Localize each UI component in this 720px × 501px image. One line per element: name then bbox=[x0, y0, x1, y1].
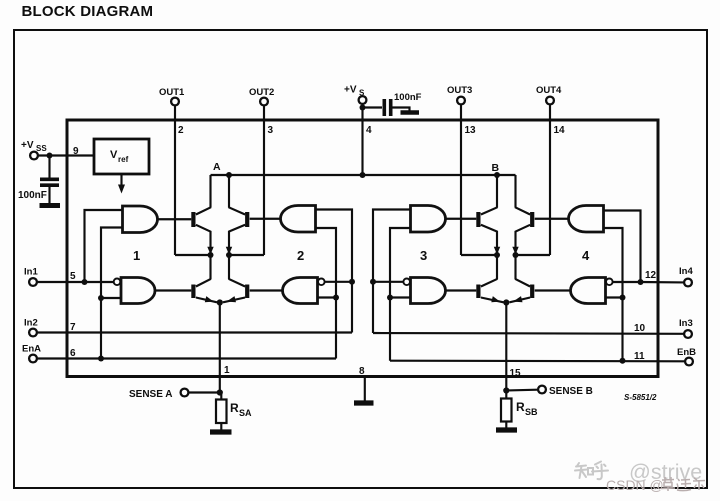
wire EnB riser to gate4a input bbox=[604, 228, 623, 361]
IC package box bbox=[67, 120, 658, 377]
node EnB junction bbox=[620, 358, 626, 364]
pin SENSE B terminal bbox=[538, 386, 593, 397]
svg-text:+V: +V bbox=[344, 85, 357, 96]
wire EnB from pin bbox=[390, 360, 685, 363]
svg-text:5: 5 bbox=[70, 271, 76, 282]
block label 2 bbox=[297, 248, 304, 263]
wire In1 to gate1 bbox=[37, 281, 113, 283]
node EnA branch to gate2b bbox=[333, 295, 339, 301]
transistor Q2 (bridge A upper right) bbox=[226, 207, 250, 255]
svg-text:EnB: EnB bbox=[677, 347, 696, 358]
svg-text:R: R bbox=[230, 401, 239, 415]
wire OUT4 down to bridge B right bbox=[549, 105, 551, 255]
wire gate3a output to Q5 base bbox=[446, 218, 477, 220]
wire gate1a output to Q1 base bbox=[158, 218, 192, 220]
title bbox=[22, 3, 154, 20]
watermark CSDN @caolianle bbox=[606, 477, 664, 493]
pin In2 terminal bbox=[24, 318, 38, 337]
wire EnB riser to gate3a input bbox=[390, 228, 411, 361]
wire Q7 collector bbox=[496, 255, 498, 279]
node Vss-cap junction bbox=[47, 153, 53, 159]
wire sense B node to terminal bbox=[506, 389, 537, 392]
svg-text:10: 10 bbox=[634, 323, 646, 334]
wire EnB branch to gate3b input bbox=[390, 296, 411, 298]
wire EnA branch to gate2b input bbox=[318, 296, 337, 298]
svg-text:1: 1 bbox=[224, 365, 230, 376]
svg-text:SENSE A: SENSE A bbox=[129, 389, 173, 400]
transistor Q4 (bridge A lower right) bbox=[223, 279, 249, 303]
pin number 7 bbox=[70, 322, 76, 333]
wire RSA to ground bbox=[220, 423, 222, 430]
pin In3 terminal bbox=[679, 318, 693, 338]
svg-text:B: B bbox=[492, 162, 500, 174]
wire In2 riser to gate2a input bbox=[316, 210, 353, 333]
svg-text:In3: In3 bbox=[679, 318, 693, 329]
wire sense A to resistor node bbox=[189, 391, 220, 393]
svg-text:11: 11 bbox=[634, 351, 645, 362]
wire OUT2 down to bridge A right bbox=[263, 106, 265, 255]
wire EnB branch to gate4b input bbox=[606, 296, 623, 298]
pin number 4 bbox=[366, 125, 372, 136]
svg-text:8: 8 bbox=[359, 366, 365, 377]
resistor RSA bbox=[216, 393, 252, 424]
svg-text:4: 4 bbox=[582, 248, 590, 263]
pin +Vs terminal bbox=[344, 85, 366, 104]
transistor Q1 (bridge A upper left) bbox=[191, 207, 213, 255]
svg-text:15: 15 bbox=[510, 368, 522, 379]
wire capacitor to ground (Vs) bbox=[393, 108, 410, 111]
pin SENSE A terminal bbox=[129, 389, 188, 400]
svg-text:OUT3: OUT3 bbox=[447, 85, 472, 96]
wire junction to capacitor 100nF (Vs) bbox=[363, 106, 383, 108]
svg-text:SA: SA bbox=[239, 408, 252, 418]
node EnA branch to gate1b bbox=[98, 295, 104, 301]
node In1 junction bbox=[82, 279, 88, 285]
wire In3 riser to gate3a input bbox=[373, 210, 411, 334]
wire In1 riser to gate1a input bbox=[85, 210, 123, 282]
nand-gate 1b (block 1 lower) bbox=[114, 278, 155, 304]
node EnB branch to gate3b bbox=[387, 295, 393, 301]
wire junction to capacitor bbox=[48, 156, 50, 178]
ground (pin 8) bbox=[354, 400, 374, 405]
pin In4 terminal bbox=[679, 266, 693, 286]
node In2 branch to gate2b bubble bbox=[349, 279, 355, 285]
wire gate2a output to Q2 base bbox=[250, 218, 281, 220]
wire In2 branch to gate2b bubble bbox=[325, 281, 352, 283]
transistor Q5 (bridge B upper left) bbox=[476, 207, 500, 255]
pin OUT3 terminal bbox=[447, 85, 472, 104]
wire In4 riser to gate4a input bbox=[604, 211, 641, 283]
svg-text:1: 1 bbox=[133, 248, 140, 263]
svg-text:+V: +V bbox=[21, 140, 34, 151]
pin number 3 bbox=[268, 125, 274, 136]
ground (Vss cap) bbox=[40, 203, 61, 208]
node OUT2 junction bbox=[226, 252, 264, 258]
and-gate 2a (block 2 upper, mirrored) bbox=[281, 206, 316, 233]
svg-text:ref: ref bbox=[118, 155, 129, 164]
svg-text:SB: SB bbox=[525, 407, 538, 417]
node OUT1 junction bbox=[175, 252, 214, 258]
wire gate1b output to Q3 base bbox=[155, 289, 191, 291]
svg-text:9: 9 bbox=[73, 146, 79, 157]
Vref output arrow bbox=[118, 174, 125, 194]
node OUT4 junction bbox=[513, 252, 551, 258]
svg-text:In1: In1 bbox=[24, 267, 38, 278]
svg-text:14: 14 bbox=[554, 125, 566, 136]
figure code S-5851/2 bbox=[624, 393, 657, 402]
svg-text:S-5851/2: S-5851/2 bbox=[624, 393, 657, 402]
node sense B junction bbox=[503, 299, 509, 305]
nand-gate 2b (block 2 lower, mirrored) bbox=[283, 278, 325, 304]
wire gate4a output to Q6 base bbox=[535, 218, 569, 220]
Vref box bbox=[94, 139, 149, 174]
svg-text:OUT4: OUT4 bbox=[536, 85, 562, 96]
transistor Q7 (bridge B lower left) bbox=[476, 279, 503, 303]
block label 3 bbox=[420, 248, 427, 263]
pin number 12 bbox=[645, 270, 657, 281]
node rail junction Vs bbox=[360, 172, 366, 178]
svg-text:CSDN @: CSDN @ bbox=[606, 477, 664, 493]
wire In3 branch to gate3b bubble bbox=[373, 281, 403, 283]
node B label bbox=[492, 162, 500, 174]
svg-text:2: 2 bbox=[297, 248, 304, 263]
wire Q8 collector bbox=[514, 255, 516, 279]
capacitor 100nF (Vss) bbox=[18, 179, 59, 201]
wire capacitor to ground bbox=[48, 187, 50, 204]
svg-text:A: A bbox=[213, 161, 221, 173]
node In4 branch to gate4b bubble bbox=[638, 279, 644, 285]
pin number 11 bbox=[634, 351, 645, 362]
wire OUT1 down to bridge A left bbox=[174, 106, 176, 255]
svg-text:In4: In4 bbox=[679, 266, 693, 277]
transistor Q6 (bridge B upper right) bbox=[512, 207, 534, 255]
wire Q3 collector bbox=[209, 255, 211, 279]
nand-gate 3b (block 3 lower) bbox=[403, 278, 445, 304]
wire gate2b output to Q4 base bbox=[250, 289, 283, 291]
block label 4 bbox=[582, 248, 590, 263]
ground (RSA) bbox=[210, 429, 232, 434]
node sense A resistor junction bbox=[217, 389, 223, 395]
pin number 5 bbox=[70, 271, 76, 282]
wire sense A column bbox=[219, 303, 221, 393]
svg-text:3: 3 bbox=[420, 248, 427, 263]
wire +Vs down to supply rail bbox=[361, 104, 363, 175]
node EnB branch to gate4b bbox=[620, 295, 626, 301]
node In3 branch to gate3b bubble bbox=[370, 279, 376, 285]
and-gate 4a (block 4 upper, mirrored) bbox=[569, 206, 604, 233]
wire In2 to block 2 riser bbox=[37, 331, 352, 333]
node sense A junction bbox=[217, 299, 223, 305]
node Vs-cap junction bbox=[360, 105, 366, 111]
resistor RSB bbox=[501, 393, 538, 422]
svg-text:OUT1: OUT1 bbox=[159, 87, 185, 98]
nand-gate 4b (block 4 lower, mirrored) bbox=[571, 278, 613, 304]
wire EnA riser to gate2a input bbox=[316, 228, 337, 359]
wire In3 from pin bbox=[373, 332, 684, 335]
pin number 10 bbox=[634, 323, 646, 334]
wire sense B column bbox=[505, 303, 507, 391]
svg-text:7: 7 bbox=[70, 322, 76, 333]
svg-text:4: 4 bbox=[366, 125, 372, 136]
pin number 1 bbox=[224, 365, 230, 376]
wire EnA riser to gate1a input bbox=[101, 228, 123, 359]
wire rail to Q5 collector bbox=[496, 175, 498, 208]
node rail junction A bbox=[226, 172, 232, 178]
pin number 2 bbox=[178, 125, 184, 136]
and-gate 3a (block 3 upper) bbox=[411, 206, 446, 233]
wire RSB to ground bbox=[505, 422, 507, 428]
pin number 15 bbox=[510, 368, 522, 379]
pin OUT2 terminal bbox=[249, 87, 274, 105]
wire gate3b output to Q7 base bbox=[446, 289, 477, 291]
svg-text:SENSE B: SENSE B bbox=[549, 386, 593, 397]
pin OUT1 terminal bbox=[159, 87, 185, 105]
pin OUT4 terminal bbox=[536, 85, 562, 104]
svg-text:100nF: 100nF bbox=[18, 190, 47, 201]
block label 1 bbox=[133, 248, 140, 263]
wire pin9 +Vss to Vref bbox=[38, 154, 94, 156]
svg-text:In2: In2 bbox=[24, 318, 38, 329]
node A label bbox=[213, 161, 221, 173]
svg-text:BLOCK DIAGRAM: BLOCK DIAGRAM bbox=[22, 3, 154, 20]
pin number 9 bbox=[73, 146, 79, 157]
pin EnA terminal bbox=[22, 344, 41, 363]
svg-text:13: 13 bbox=[465, 125, 477, 136]
wire rail to Q1 collector bbox=[209, 175, 211, 208]
pin +Vss terminal bbox=[21, 140, 47, 159]
wire EnA branch to gate1b input bbox=[101, 297, 121, 299]
pin number 6 bbox=[70, 348, 76, 359]
wire pin8 ground stub bbox=[364, 378, 366, 401]
svg-text:SS: SS bbox=[36, 144, 47, 153]
wire rail to Q2 collector bbox=[228, 175, 230, 208]
transistor Q3 (bridge A lower left) bbox=[191, 279, 217, 303]
wire gate4b output to Q8 base bbox=[535, 289, 571, 291]
node EnA junction bbox=[98, 356, 104, 362]
svg-text:2: 2 bbox=[178, 125, 184, 136]
pin number 13 bbox=[465, 125, 477, 136]
svg-text:V: V bbox=[110, 149, 118, 161]
pin In1 terminal bbox=[24, 267, 38, 286]
svg-text:OUT2: OUT2 bbox=[249, 87, 274, 98]
node rail junction B bbox=[494, 172, 500, 178]
ground (Vs cap) bbox=[401, 110, 420, 115]
and-gate 1a (block 1 upper) bbox=[123, 206, 158, 233]
svg-text:3: 3 bbox=[268, 125, 274, 136]
node OUT3 junction bbox=[461, 252, 500, 258]
pin EnB terminal bbox=[677, 347, 696, 365]
svg-text:6: 6 bbox=[70, 348, 76, 359]
node sense B resistor junction bbox=[503, 387, 509, 393]
svg-text:100nF: 100nF bbox=[394, 92, 422, 103]
wire In4 from pin bbox=[641, 281, 684, 284]
pin number 8 bbox=[359, 366, 365, 377]
wire rail to Q6 collector bbox=[514, 175, 516, 208]
ground (RSB) bbox=[496, 427, 517, 432]
watermark zhihu @strive bbox=[575, 462, 608, 480]
svg-text:R: R bbox=[516, 400, 525, 414]
wire In4 branch to gate4b bubble bbox=[613, 281, 641, 283]
svg-text:EnA: EnA bbox=[22, 344, 41, 355]
wire supply rail bbox=[211, 174, 516, 176]
wire OUT3 down to bridge B left bbox=[460, 105, 462, 255]
pin number 14 bbox=[554, 125, 566, 136]
wire Q4 collector bbox=[228, 255, 230, 279]
transistor Q8 (bridge B lower right) bbox=[510, 279, 535, 303]
wire EnA to risers bbox=[37, 357, 336, 359]
svg-text:12: 12 bbox=[645, 270, 657, 281]
capacitor 100nF (Vs) bbox=[384, 92, 421, 116]
